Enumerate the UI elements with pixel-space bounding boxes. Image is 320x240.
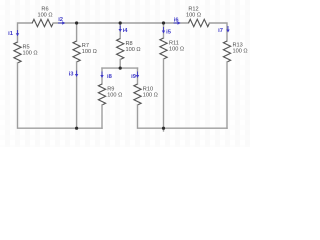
svg-text:i1: i1 [8,31,14,37]
svg-text:i7: i7 [218,28,223,34]
svg-text:i5: i5 [166,30,172,36]
wire R10 top lead [137,68,139,84]
svg-text:100 Ω: 100 Ω [186,12,201,18]
current label i3 [69,71,79,78]
wire R11 top lead [163,23,165,38]
current label i5 [162,27,172,36]
resistor R11 [160,38,184,59]
resistor R9 [98,84,122,105]
node junction top rail / R11 [162,21,165,24]
resistor R8 [117,39,141,60]
svg-text:100 Ω: 100 Ω [169,46,184,52]
wire R11 bottom lead with stub below bottom rail [163,59,165,131]
node junction sub-circuit rail / R8 [119,67,122,70]
svg-text:100 Ω: 100 Ω [143,92,158,98]
wire top rail between R6 and R12 [53,22,188,24]
resistor R6 [32,6,53,26]
node junction top rail / R7 [75,21,78,24]
current label i9 [131,72,139,81]
wire R10 bottom lead and bottom-right run to R13 [138,105,228,128]
wire R9 top lead [101,68,103,84]
current label i6 [174,18,181,25]
wire top-left corner: left rail up to R6 [18,23,33,42]
current label i4 [119,26,129,35]
wire R9 bottom lead [101,105,103,128]
wire sub-circuit top rail [102,67,138,69]
node junction bottom rail / R11 [162,127,165,130]
svg-text:i8: i8 [107,74,113,80]
resistor R7 [73,41,97,62]
svg-text:100 Ω: 100 Ω [233,48,248,54]
current label i2 [58,17,65,25]
svg-text:100 Ω: 100 Ω [107,92,122,98]
current label i1 [8,30,19,37]
wire R13 bottom lead [226,62,228,128]
current label i8 [100,72,112,81]
wire R7 bottom lead [76,62,78,128]
resistor R10 [134,84,158,105]
svg-text:100 Ω: 100 Ω [23,51,38,57]
wire R8 bottom lead [119,60,121,69]
svg-text:100 Ω: 100 Ω [126,47,141,53]
resistor R5 [14,42,38,63]
svg-text:100 Ω: 100 Ω [82,49,97,55]
node junction bottom rail / R7 [75,127,78,130]
node junction top rail / R8 [119,21,122,24]
svg-text:i4: i4 [123,28,129,34]
resistor R12 [186,6,210,26]
current label i7 [218,26,230,34]
wire top-right corner down to R13 [210,23,228,41]
svg-text:i3: i3 [69,72,75,78]
wire R7 top lead [76,23,78,41]
svg-text:100 Ω: 100 Ω [37,12,52,18]
resistor R13 [223,41,247,62]
wire R8 top lead [119,23,121,39]
wire left rail down and bottom-left run to R9 [18,63,103,128]
svg-text:i9: i9 [131,74,137,80]
